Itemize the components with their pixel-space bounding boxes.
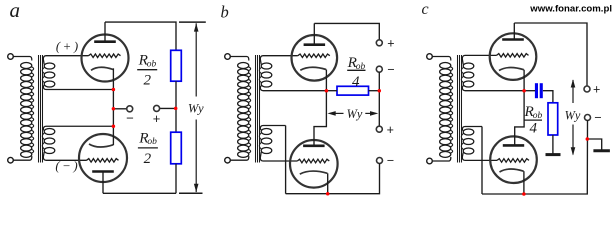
label Rob/2 lower bbox=[138, 129, 149, 146]
capacitor C1 right plate bbox=[540, 83, 543, 98]
resistor R1 (Rob/2 upper) bbox=[171, 50, 182, 81]
wire terminal2 to divider bus b bbox=[378, 72, 380, 126]
svg-text:ob: ob bbox=[147, 137, 157, 147]
label plus a bbox=[153, 111, 161, 126]
label Rob/4 c bbox=[524, 103, 535, 120]
label plus c bbox=[593, 82, 600, 96]
transformer Tr-c primary primary terminal bottom bbox=[427, 158, 433, 164]
junction c minus bbox=[586, 137, 590, 141]
transformer Tr-b primary core bbox=[255, 55, 257, 163]
resistor R3 (Rob/4) bbox=[337, 86, 369, 95]
junction c bottom bbox=[522, 192, 526, 196]
terminal 3 b plus bbox=[376, 126, 382, 132]
resistor R4 (Rob/4) bbox=[548, 103, 558, 135]
svg-text:2: 2 bbox=[144, 151, 152, 167]
wire V5 cathode down to junction c bbox=[523, 70, 525, 91]
terminal minus a bbox=[127, 106, 133, 112]
circuit a label bbox=[10, 0, 21, 22]
tube V2 anode plate bbox=[92, 170, 114, 173]
label minus c bbox=[594, 111, 601, 125]
junction a top bbox=[112, 88, 116, 92]
wire terminal4 to bottom rail b bbox=[286, 163, 380, 193]
tube V6 envelope bbox=[490, 136, 537, 183]
svg-text:a: a bbox=[10, 0, 21, 22]
wire resistor to ground c bbox=[552, 135, 554, 155]
label Rob/4 bbox=[347, 54, 358, 71]
transformer Tr-a secondary upper winding bbox=[44, 63, 55, 69]
transformer Tr-b primary primary terminal bottom bbox=[225, 157, 231, 163]
wire center bus a bbox=[112, 68, 114, 145]
svg-text:Wу: Wу bbox=[347, 107, 363, 121]
tube V1 filament bbox=[89, 54, 121, 58]
wire plus terminal to divider bbox=[159, 107, 175, 109]
label (-) bbox=[55, 159, 77, 173]
wire secondary lower top lead down b bbox=[285, 126, 287, 194]
site url bbox=[529, 4, 612, 15]
svg-text:b: b bbox=[221, 2, 229, 21]
svg-text:+: + bbox=[387, 36, 394, 50]
wire top rail c bbox=[514, 23, 587, 86]
tube V1 envelope bbox=[82, 35, 129, 82]
dimension Wy a top cap bbox=[179, 21, 206, 23]
svg-text:+: + bbox=[153, 111, 161, 126]
tube V4 envelope bbox=[290, 140, 338, 188]
svg-text:( − ): ( − ) bbox=[55, 159, 77, 173]
wire junction to step to V4 anode bbox=[314, 91, 326, 146]
terminal 2 b minus bbox=[376, 66, 382, 72]
terminal 1 b plus bbox=[376, 40, 382, 46]
junction a bottom bbox=[112, 125, 116, 129]
dimension Wy b right arrow bbox=[370, 111, 378, 116]
wire V1 anode to top rail bbox=[104, 22, 106, 41]
svg-text:−: − bbox=[387, 63, 394, 77]
transformer Tr-b primary primary winding bbox=[230, 57, 249, 61]
dimension Wy a bottom cap bbox=[179, 192, 203, 194]
transformer Tr-b secondary upper winding bbox=[261, 63, 272, 69]
transformer Tr-a secondary lower winding bbox=[44, 128, 55, 134]
wire ground stub c bbox=[587, 139, 601, 151]
tube V5 filament bbox=[497, 54, 529, 58]
wire V3 anode to top rail b bbox=[313, 23, 315, 44]
wire resistor left b bbox=[326, 90, 337, 92]
dimension Wy c arrow up bbox=[571, 79, 576, 87]
capacitor C1 left plate bbox=[535, 83, 538, 98]
tube V3 envelope bbox=[292, 35, 338, 81]
tube V2 cathode arc bbox=[89, 144, 113, 147]
label minus b2 bbox=[387, 63, 394, 77]
svg-text:−: − bbox=[594, 111, 601, 125]
wire bottom rail a bbox=[103, 192, 176, 194]
label minus a bbox=[126, 110, 134, 125]
svg-text:ob: ob bbox=[147, 59, 157, 69]
svg-text:( + ): ( + ) bbox=[56, 40, 78, 54]
svg-text:+: + bbox=[593, 82, 600, 96]
svg-text:4: 4 bbox=[352, 74, 360, 90]
tube V4 cathode arc bbox=[300, 171, 328, 174]
wire between resistors bbox=[175, 81, 177, 132]
wire V6 cathode to bottom rail c bbox=[523, 171, 525, 194]
wire top rail a bbox=[105, 22, 176, 50]
circuit c label bbox=[422, 1, 429, 18]
wire V2 anode to bottom rail bbox=[102, 172, 104, 194]
wire junction to capacitor bbox=[524, 90, 535, 92]
ground at output c bbox=[593, 149, 610, 152]
svg-text:2: 2 bbox=[143, 72, 151, 88]
terminal 4 b minus bbox=[377, 158, 383, 164]
ground under resistor bbox=[546, 153, 561, 156]
wire V3 cathode down to junction b bbox=[325, 70, 327, 91]
svg-text:+: + bbox=[387, 123, 394, 137]
terminal minus c bbox=[585, 115, 591, 121]
transformer Tr-c secondary upper winding bbox=[463, 63, 474, 69]
dimension Wy b line left bbox=[335, 112, 344, 114]
dimension Wy b line right bbox=[365, 112, 371, 114]
junction c capacitor node bbox=[522, 89, 526, 93]
tube V1 cathode arc bbox=[91, 67, 113, 70]
wire top rail b bbox=[314, 23, 379, 40]
svg-text:−: − bbox=[387, 153, 394, 167]
tube V6 filament bbox=[497, 159, 529, 163]
transformer Tr-a primary primary terminal top bbox=[8, 54, 14, 60]
dimension Wy c line upper bbox=[572, 80, 574, 103]
dimension Wy b left arrow bbox=[327, 111, 335, 116]
tube V1 anode plate bbox=[94, 40, 116, 43]
label (+) bbox=[56, 40, 78, 54]
label Wy c bbox=[565, 109, 581, 123]
terminal plus a bbox=[154, 105, 160, 111]
terminal plus c bbox=[584, 86, 590, 92]
label plus b3 bbox=[387, 123, 394, 137]
svg-text:4: 4 bbox=[530, 121, 538, 137]
tube V3 cathode arc bbox=[300, 67, 326, 70]
junction a divider bbox=[174, 107, 178, 111]
transformer Tr-b primary primary terminal top bbox=[225, 54, 231, 60]
tube V4 filament bbox=[297, 159, 329, 163]
resistor R2 (Rob/2 lower) bbox=[171, 132, 182, 164]
label minus b4 bbox=[387, 153, 394, 167]
svg-text:Wу: Wу bbox=[188, 102, 204, 116]
dimension Wy a line lower bbox=[195, 120, 197, 193]
tube V3 anode plate bbox=[304, 43, 326, 46]
junction b right bbox=[378, 89, 382, 93]
svg-text:ob: ob bbox=[533, 111, 543, 121]
svg-text:c: c bbox=[422, 1, 429, 18]
transformer Tr-c secondary lower winding bbox=[463, 129, 474, 135]
label Rob/2 upper bbox=[138, 52, 149, 69]
dimension Wy a arrow up bbox=[194, 23, 199, 31]
wire resistor right b bbox=[369, 90, 380, 92]
wire secondary lower top lead down c bbox=[481, 127, 483, 195]
transformer Tr-c primary primary terminal top bbox=[427, 54, 433, 60]
label plus b1 bbox=[387, 36, 394, 50]
tube V6 anode plate bbox=[503, 144, 524, 147]
wire junction down step to V6 anode bbox=[515, 91, 524, 146]
tube V5 envelope bbox=[490, 33, 537, 80]
svg-text:−: − bbox=[126, 110, 134, 125]
transformer Tr-a primary primary winding bbox=[13, 57, 32, 61]
tube V4 anode plate bbox=[303, 145, 325, 148]
wire R2 to bottom rail bbox=[175, 164, 177, 194]
wire V5 anode to top rail c bbox=[513, 23, 515, 40]
label Wy b bbox=[347, 107, 363, 121]
transformer Tr-c primary primary winding bbox=[432, 57, 451, 61]
dimension Wy c arrow down bbox=[571, 147, 576, 155]
junction b left bbox=[325, 89, 329, 93]
dimension Wy c line lower bbox=[572, 125, 574, 155]
wire V4 cathode to bottom rail bbox=[327, 173, 329, 193]
tube V5 cathode arc bbox=[499, 67, 524, 70]
tube V2 filament bbox=[87, 159, 119, 163]
label Wy a bbox=[188, 102, 204, 116]
tube V2 envelope bbox=[79, 134, 127, 182]
wire minus terminal down to rail c bbox=[482, 120, 588, 194]
dimension Wy a line upper bbox=[195, 23, 197, 96]
tube V6 cathode arc bbox=[500, 169, 524, 172]
transformer Tr-c primary core bbox=[457, 55, 459, 163]
svg-text:Wу: Wу bbox=[565, 109, 581, 123]
junction a center tap bbox=[112, 107, 116, 111]
transformer Tr-a primary core bbox=[38, 55, 40, 163]
tube V5 anode plate bbox=[502, 38, 524, 41]
wire to minus terminal bbox=[113, 108, 127, 110]
dimension Wy a arrow down bbox=[194, 184, 199, 192]
wire capacitor to resistor bbox=[543, 91, 553, 103]
circuit b label bbox=[221, 2, 229, 21]
transformer Tr-b secondary lower winding bbox=[261, 128, 272, 134]
junction b bottom bbox=[326, 192, 330, 196]
tube V3 filament bbox=[298, 54, 330, 58]
transformer Tr-a primary primary terminal bottom bbox=[8, 157, 14, 163]
svg-text:www.fonar.com.pl: www.fonar.com.pl bbox=[529, 4, 612, 15]
